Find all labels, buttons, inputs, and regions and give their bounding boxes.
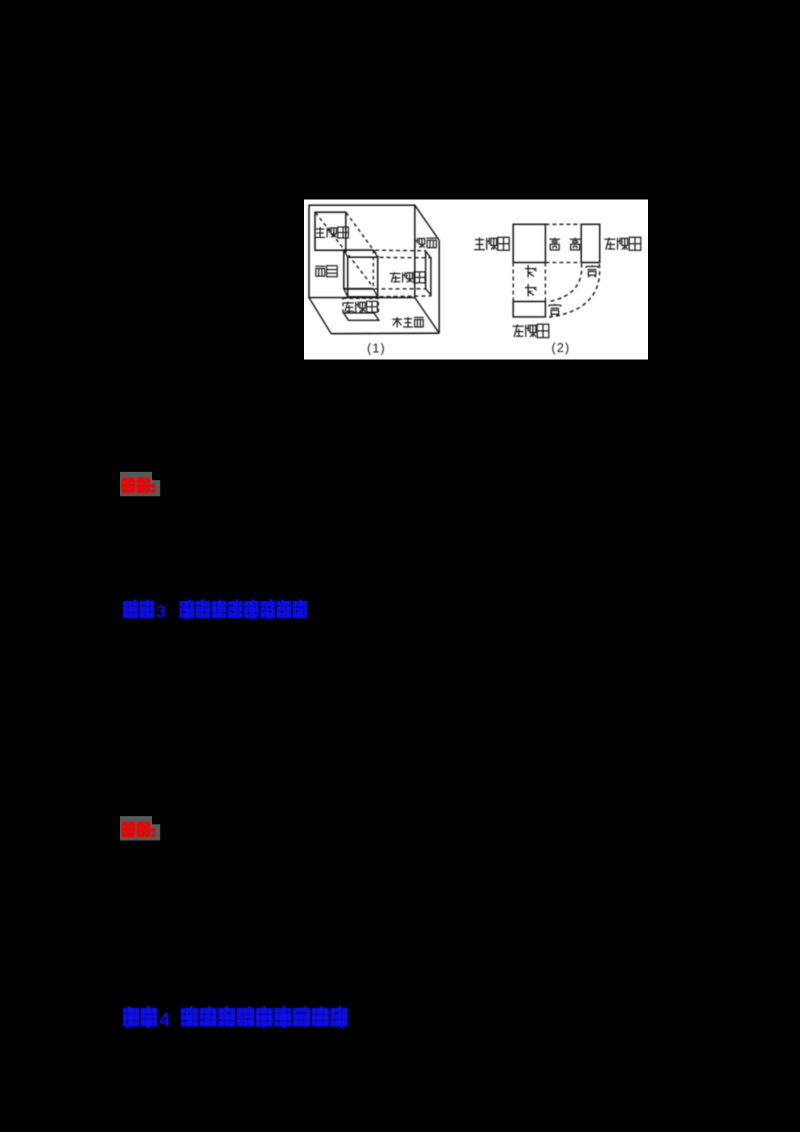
fig1 object cube back square (right edge hidden/dashed) (344, 250, 374, 289)
fig1 fold line from front-view square to cube (315, 249, 373, 251)
label: fig1 text 主视图 (315, 227, 348, 238)
fig2 dashed verticals below front view (512, 263, 514, 302)
fig2 dashed bottom edge between views (545, 262, 581, 264)
red tag 1 (jiexi) red bold text (two hanzi + colon) (122, 478, 156, 494)
fig1 top-view parallelogram on horizontal plane (344, 313, 379, 320)
fig2 dashed top edge between views (545, 223, 581, 225)
fig2 top-view rectangle (513, 302, 545, 317)
svg-text:3: 3 (156, 602, 166, 622)
blue heading 2 (kaodian 4) : heading text (181, 1006, 348, 1028)
fig2 outer width-transfer dashed arc (549, 264, 600, 317)
fig1 box bottom-left receding edge (309, 298, 331, 334)
label: fig2 text 俯视图 (513, 324, 549, 337)
fig2 front-view square (513, 224, 545, 262)
label: fig2 text 宽(lower) (549, 304, 561, 317)
svg-text:(2): (2) (552, 341, 571, 355)
fig1 box back-right vertical edge (438, 240, 440, 333)
fig1 left-view rectangle on side plane (parallelogram) (426, 251, 431, 295)
red tag 2 (jiexi) grey highlight background (120, 816, 160, 840)
fig1 dashed projection diagonal from front-view TR to cube (346, 213, 378, 257)
fig1 cube corner connectors (344, 250, 348, 257)
fig1 object cube front square (348, 257, 378, 297)
red tag 2 (jiexi) red bold text (two hanzi + colon) (122, 822, 156, 838)
blue heading 1 (kaodian 3) : heading text (180, 599, 308, 620)
label: fig2 text 左视图 (604, 237, 641, 250)
fig1 dashed projection lines to side plane (375, 249, 426, 252)
fig1 top-view dashed box (343, 298, 378, 312)
label: fig2 text 长(2) (525, 284, 537, 296)
blue heading 1 (kaodian 3) : kaodian label (123, 599, 166, 621)
svg-text:(1): (1) (367, 342, 386, 356)
blue heading 2 (kaodian 4) : kaodian label (123, 1006, 170, 1030)
fig1 box back-bottom edge (horizontal plane) (331, 332, 439, 335)
label: fig2 text 宽(upper) (586, 265, 598, 277)
fig1 big box front face (zheng-mian plane) (309, 205, 415, 297)
label: fig1 text 侧面 (415, 238, 437, 248)
label: fig1 text 水平面 (392, 317, 424, 328)
label: fig2 text 高(2) (570, 238, 581, 250)
label: fig1 text 俯视图 (343, 301, 377, 312)
fig1 dashed projection diagonal from front-view TL to cube (316, 213, 372, 286)
red tag 1 (jiexi) grey highlight background (120, 472, 160, 496)
label: fig2 text 主视图 (474, 237, 509, 250)
label: fig2 text 高(1) (549, 238, 560, 250)
svg-text:4: 4 (159, 1009, 170, 1030)
fig2 left-view rectangle (581, 224, 600, 262)
fig1 cube hidden right edge (dashed) (372, 250, 374, 289)
white figure panel (304, 200, 648, 360)
label: fig1 text 正面 (315, 266, 337, 277)
fig1 box top-right receding edge (415, 205, 439, 240)
label: fig1 text 左视图 (390, 272, 425, 283)
fig2 inner width-transfer dashed arc (548, 264, 582, 302)
fig1 box bottom-right receding edge (415, 298, 439, 334)
fig1 zhu-shi-tu (front view) square (315, 212, 346, 250)
label: fig2 text 长(1) (525, 265, 537, 277)
